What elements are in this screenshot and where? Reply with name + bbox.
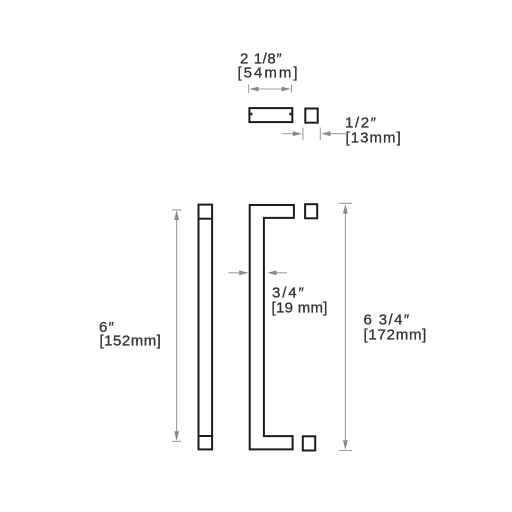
svg-text:[172mm]: [172mm] [364, 327, 428, 344]
svg-text:[152mm]: [152mm] [100, 332, 162, 349]
svg-text:[54mm]: [54mm] [238, 65, 300, 82]
svg-text:[19 mm]: [19 mm] [272, 299, 328, 316]
svg-text:[13mm]: [13mm] [346, 129, 402, 146]
